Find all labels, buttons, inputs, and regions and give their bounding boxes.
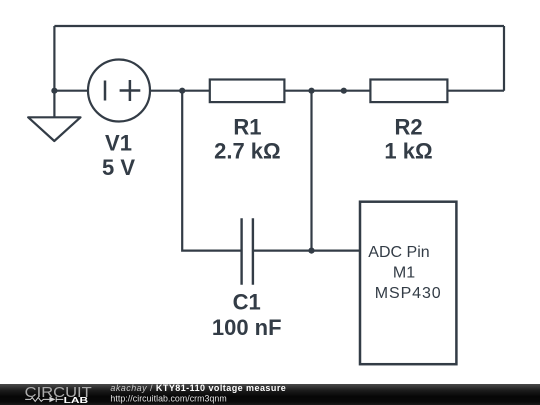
node junction at C1 output <box>308 248 314 254</box>
node junction V1 plus branch <box>179 88 185 94</box>
svg-text:ADC Pin: ADC Pin <box>368 244 429 261</box>
wire right riser <box>503 26 505 91</box>
CircuitLab logo zigzag and diode <box>25 397 63 402</box>
svg-text:2.7 kΩ: 2.7 kΩ <box>214 139 281 164</box>
wire node B to M1 ADC pin <box>312 250 361 252</box>
resistor R2 <box>370 80 447 103</box>
wire R1 to R2 <box>284 90 370 92</box>
svg-text:akachay / KTY81-110 voltage me: akachay / KTY81-110 voltage measure <box>110 383 286 393</box>
module M1 MSP430 box <box>360 202 456 365</box>
svg-text:R1: R1 <box>233 115 261 140</box>
wire R2 to right rail <box>447 90 504 92</box>
wire node A to V1 minus <box>54 90 87 92</box>
wire C1 to node B <box>253 250 312 252</box>
wire left riser <box>53 26 55 91</box>
footer bar <box>0 384 540 405</box>
voltage source V1 <box>88 60 150 122</box>
capacitor C1 <box>242 218 253 284</box>
svg-text:C1: C1 <box>233 289 261 314</box>
ground <box>28 117 80 141</box>
node A junction at ground <box>51 88 57 94</box>
node junction before R2 <box>341 88 347 94</box>
svg-text:V1: V1 <box>105 130 132 155</box>
wire left branch down to C1 <box>182 91 241 251</box>
wire V1 plus to R1 <box>151 90 210 92</box>
svg-text:100 nF: 100 nF <box>212 315 282 340</box>
wire top rail <box>54 25 504 27</box>
svg-text:R2: R2 <box>394 115 422 140</box>
node B junction R1 right <box>308 88 314 94</box>
wire node A to ground <box>53 91 55 118</box>
svg-text:M1: M1 <box>393 265 415 282</box>
svg-text:LAB: LAB <box>64 396 89 405</box>
svg-text:http://circuitlab.com/crm3qnm: http://circuitlab.com/crm3qnm <box>110 393 226 403</box>
wire middle branch down <box>310 91 312 251</box>
resistor R1 <box>210 80 285 103</box>
svg-text:5 V: 5 V <box>102 155 135 180</box>
svg-text:1 kΩ: 1 kΩ <box>384 139 432 164</box>
svg-text:MSP430: MSP430 <box>375 285 442 302</box>
